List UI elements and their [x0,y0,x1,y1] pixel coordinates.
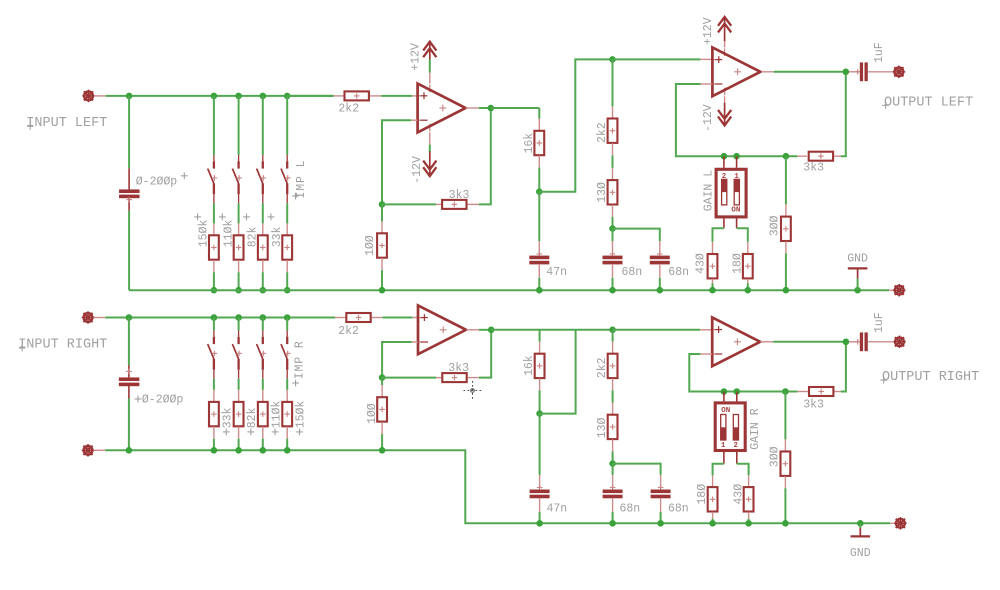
wire input-left row [106,95,334,97]
pin U1A V+ [429,73,431,84]
wire 16k top (right) [539,330,541,342]
wire resistor 33k to mid rail [213,439,215,451]
junction mid rail / C2 [126,447,133,454]
pin dip L 2 [736,156,738,168]
svg-text:ON: ON [731,206,740,214]
resistor 430 (left) [708,254,718,278]
capacitor 68n #1 (right) [603,490,623,494]
resistor 11&#216;k (right) [258,402,268,426]
junction mid rail / 11&#216;k [260,447,267,454]
pin 130r top [612,403,614,415]
pin 3k3 fb left (right) [436,377,441,379]
pin 430r top [748,475,750,486]
pin R 100 bottom [381,258,383,270]
ground GND (right) [851,535,871,537]
resistor 180 (right) [708,487,718,511]
origin cross IMP L label [292,195,299,197]
wire node to 68n#2 (right) [613,464,661,475]
pin op-amp U1A +in [412,95,417,97]
pin resistor 33k top [286,223,288,235]
origin cross INPUT LEFT [27,125,34,127]
wire switch 8 top [286,318,288,331]
pin C 68n1r bottom [612,499,614,512]
capacitor 47n (right) [530,490,550,494]
wire resistor 82k to mid rail [238,439,240,451]
pin R 3k3 fb left [436,203,441,205]
pin rail2 to pad [890,522,894,524]
origin cross C2 label [135,398,142,400]
origin cross OUTPUT LEFT [882,104,889,106]
origin cross C1 [126,199,132,201]
wire 68n1r to rail [612,512,614,523]
pin C 68n#2 bottom [659,265,661,278]
junction rail / 11&#216;k [235,287,242,294]
pin 3k3r out left [798,391,808,393]
svg-text:13Ø: 13Ø [596,417,609,438]
pin R 2k2r right [372,317,383,319]
pin 16kr top [539,342,541,354]
pin C 68n1r top [612,475,614,487]
pin dip L bottom1 [723,218,725,228]
svg-text:3ØØ: 3ØØ [769,215,782,236]
pin R 2k2 left [334,95,344,97]
svg-text:2k2: 2k2 [338,102,359,115]
op-amp U1B (left output stage) [712,59,716,61]
capacitor 68n #2 (right) [651,490,671,494]
resistor 100 (right) [377,397,387,421]
wire resistor 11&#216;k to rail [238,272,240,290]
svg-text:68n: 68n [668,266,689,279]
wire resistor 15&#216;k to rail [213,272,215,290]
wire switch 3 to resistor [262,203,264,223]
resistor 15&#216;k (left) [209,235,219,259]
origin cross C 1uF (left) [855,71,861,73]
wire to C 68n #1 [612,229,614,242]
resistor 130 (left) [608,180,618,204]
pin R 2k2r left [335,317,345,319]
wire R 100r to mid rail [381,434,383,450]
pin U1B V- [724,96,726,103]
pin resistor 11&#216;k bottom [262,427,264,439]
wire 16k node riser (right) [540,330,576,414]
wire 3k3 up to output [841,72,846,156]
pin 180 bottom [747,279,749,284]
wire dip to 180 [737,228,748,242]
wire switch 2 top [238,96,240,155]
origin cross C1 label [181,175,188,177]
pad X4 input right [84,313,93,322]
pin resistor 15&#216;k bottom [213,260,215,272]
junction input-right / switch col 287.2 [284,314,291,321]
svg-text:IMP L: IMP L [295,160,308,199]
pad X6 rail right end (right) [896,519,905,528]
pin rail to pad [889,289,893,291]
svg-text:-12V: -12V [702,104,715,132]
svg-text:18Ø: 18Ø [696,484,709,505]
junction rail2 / GND (right) [857,520,864,527]
resistor 3k3 feedback (U1B) [809,152,833,161]
svg-text:68n: 68n [620,503,641,516]
origin cross 33k label [268,216,275,218]
wire node to R 100 (right) [381,378,383,386]
pin C 1uFr right to pad [868,341,893,343]
svg-text:2k2: 2k2 [338,325,359,338]
junction row / 2k2 (right) [609,327,616,334]
svg-text:2k2: 2k2 [596,357,609,378]
wire U2B output [774,341,846,343]
wire row to U1B +in [613,58,701,60]
wire V- to -12V [429,145,431,152]
svg-text:13Ø: 13Ø [596,182,609,203]
svg-text:33k: 33k [221,407,234,428]
switch S2 (left) [238,155,240,162]
resistor 300 (left) [781,217,791,241]
svg-text:11Øk: 11Øk [222,220,235,248]
junction fb row / dip pin1 (right) [721,388,728,395]
pin R 2k2 right [370,95,381,97]
wire -in feedback row (left) [676,84,798,156]
svg-text:GND: GND [850,547,871,560]
junction rail / 82k [260,287,267,294]
svg-text:16k: 16k [523,133,536,154]
origin cross 11&#216;k label [272,431,279,433]
origin cross C 68n#2 (right) [658,487,664,489]
pin R 100r bottom [381,422,383,434]
junction rail2 / 68n#2 [657,520,664,527]
junction rail / R100 [379,287,386,294]
wire 2k2 to U2A +in [383,317,413,319]
pin X4 [94,317,106,319]
pin U1A -in [411,119,417,121]
wire dip to 430 (right) [737,464,749,476]
supply -12V arrow (U1A) [429,151,431,176]
pad X2 rail right end (left) [895,286,904,295]
pin U2A +in [413,317,418,319]
wire switch 6 to resistor [238,379,240,390]
pin 430r bottom [748,512,750,519]
capacitor 68n #1 (left) [603,256,623,260]
pin C2 top [128,365,130,377]
wire to GND (right) [859,523,861,528]
junction mid rail / 33k [211,447,218,454]
pin C 68n#2 top [659,241,661,253]
svg-text:3k3: 3k3 [803,161,824,174]
pin C 1uF left [849,71,860,73]
wire output to 16k [491,107,540,109]
pin U1A output [466,107,479,109]
origin cross INPUT RIGHT [19,347,26,349]
svg-text:OUTPUT RIGHT: OUTPUT RIGHT [882,370,979,385]
svg-text:1: 1 [721,442,726,450]
pin resistor 11&#216;k top [238,223,240,235]
origin cross 15&#216;k label [296,431,303,433]
junction input-left / switch col 262.8 [260,93,267,100]
pin 2k2v bottom [612,143,614,155]
pin U1B -in [701,83,713,85]
wire C2 bottom to mid rail [128,399,130,451]
supply +12V arrow (U1A) [429,41,431,59]
junction input-left / C1 [126,93,133,100]
wire 2k2v top [612,59,614,106]
wire 430 to rail [712,283,714,290]
junction rail / 430 [709,287,716,294]
pin 16k bottom [538,156,540,168]
pin 130 bottom [612,205,614,217]
svg-text:2k2: 2k2 [596,122,609,143]
pin dip R 1 [723,392,725,402]
resistor 33k (left) [282,235,292,259]
pin 180r top [712,475,714,486]
wire switch 5 top [213,318,215,331]
origin cross C 47n [537,253,543,255]
wire 16k top [538,108,540,119]
svg-text:3k3: 3k3 [449,189,470,202]
wire resistor 11&#216;k to mid rail [262,439,264,451]
wire input-right row [105,317,335,319]
pin C2 bottom [128,386,130,399]
wire resistor 33k to rail [286,272,288,290]
svg-text:1ØØ: 1ØØ [366,403,379,424]
junction feedback node (right) [379,374,386,381]
wire node to R 100 [381,204,383,221]
junction rail / 33k [284,287,291,294]
svg-text:-12V: -12V [411,156,424,184]
junction 130/68n node (right) [609,460,616,467]
wire 3k3 to output node [479,108,491,204]
cursor crosshair [464,390,482,392]
svg-text:47n: 47n [547,503,568,516]
pin resistor 82k bottom [262,260,264,272]
svg-text:47n: 47n [546,266,567,279]
wire row to U2B +in [613,329,701,331]
resistor 430 (right) [744,487,754,511]
wire switch 4 top [286,96,288,155]
resistor 82k (right) [234,402,244,426]
wire C1 top [128,96,130,168]
pin U2B -in [700,353,712,355]
wire 300 top [785,156,787,204]
svg-text:INPUT LEFT: INPUT LEFT [26,116,107,131]
svg-text:Ø-2ØØp: Ø-2ØØp [142,393,184,406]
pin X5 [94,449,106,451]
pin U2A -in [412,341,418,343]
pin dip R bottom2 [736,452,738,464]
wire switch 3 top [262,96,264,155]
resistor 180 (left) [743,254,753,278]
junction output / 1uF [843,69,850,76]
svg-text:82k: 82k [247,226,260,247]
junction rail / 180 [745,287,752,294]
resistor 11&#216;k (left) [234,235,244,259]
wire 180 to rail [747,283,749,290]
pin dip L 1 [723,156,725,168]
junction mid rail / 15&#216;k [284,447,291,454]
pad X7 output right [895,337,904,346]
junction rail / 300 [783,287,790,294]
pin resistor 33k top [213,390,215,402]
junction rail / GND (left) [854,287,861,294]
svg-text:68n: 68n [622,266,643,279]
svg-text:OUTPUT LEFT: OUTPUT LEFT [884,95,973,110]
wire switch 5 to resistor [213,379,215,390]
svg-text:Ø-2ØØp: Ø-2ØØp [136,176,178,189]
pin C 68n#1 top [612,241,614,253]
resistor 3k3 feedback (left) [442,200,466,209]
junction feedback node (left) [379,201,386,208]
wire C2 top [128,318,130,366]
wire 2k2vr to 130r [612,390,614,402]
ground GND (left) [848,267,868,269]
pin R 100r top [381,385,383,397]
wire dip to 180 (right) [713,464,724,476]
switch S5 (right) [213,330,215,337]
svg-text:ON: ON [721,407,730,415]
junction input-left / switch col 238.6 [235,93,242,100]
pin dip R bottom1 [723,452,725,464]
origin cross C 1uF (right) [855,341,861,343]
origin cross 33k label [223,431,230,433]
switch S1 (left) [213,155,215,162]
junction rail2 / 47n [536,520,543,527]
svg-text:1ØØ: 1ØØ [364,235,377,256]
op-amp U2B (right output stage) [712,329,716,331]
pin resistor 82k top [262,223,264,235]
resistor 16k (left) [534,131,544,155]
pin resistor 15&#216;k top [213,223,215,235]
wire 3k3 up to output (right) [841,342,846,392]
svg-text:+12V: +12V [410,43,423,71]
resistor 33k (right) [209,402,219,426]
wire U2A output stub [479,329,491,331]
switch S7 (right) [262,330,264,337]
pin resistor 33k bottom [286,260,288,272]
junction input-right / switch col 238.6 [235,314,242,321]
pin 130 top [612,168,614,180]
junction mid rail / 82k [235,447,242,454]
junction input-right / switch col 262.8 [260,314,267,321]
junction 16k/47n node (right) [536,410,543,417]
capacitor 1uF (right) [860,332,863,351]
svg-text:+12V: +12V [702,17,715,45]
wire C1 bottom to rail [128,211,130,290]
pin C 68n2r bottom [660,499,662,512]
wire output stub [479,107,491,109]
junction U1B row / 2k2 [609,56,616,63]
junction rail / 15&#216;k [211,287,218,294]
pin C1 top [128,168,130,189]
origin cross OUTPUT RIGHT [880,379,887,381]
wire to C 68n#1 (right) [612,464,614,475]
wire 68n#2 to rail [659,278,661,290]
svg-text:43Ø: 43Ø [695,253,708,274]
svg-text:1uF: 1uF [873,42,886,63]
wire switch 4 to resistor [286,203,288,223]
wire -in feedback row (right) [689,354,797,392]
pin C 1uFr left [849,341,860,343]
pin C 47n bottom [538,265,540,278]
svg-text:68n: 68n [668,503,689,516]
wire 47n to rail [538,278,540,290]
svg-text:3k3: 3k3 [803,398,824,411]
junction U2A output node [488,327,495,334]
pin U1B V+ [724,41,726,48]
svg-text:33k: 33k [271,226,284,247]
wire 300r to rail [784,488,786,523]
pad X1 input left [84,92,93,101]
origin cross 82k label [243,216,250,218]
origin cross C2 [126,370,132,372]
junction input-left / switch col 213.9 [211,93,218,100]
resistor 82k (left) [258,235,268,259]
capacitor 47n (left) [529,256,549,260]
capacitor 1uF (left) [860,62,863,81]
junction input-left / switch col 287.2 [284,93,291,100]
resistor 2k2 shunt (right) [608,354,618,378]
pin U1B +in [700,58,712,60]
junction fb row / 300 [783,153,790,160]
pin dip L bottom2 [736,218,738,228]
pin 2k2v top [612,106,614,118]
wire switch 2 to resistor [238,203,240,223]
junction rail / 68n#2 [657,287,664,294]
wire -in to feedback node (right) [382,342,412,378]
svg-text:43Ø: 43Ø [732,484,745,505]
wire 16kr bottom [539,390,541,413]
pin GND (left) [857,268,859,278]
svg-text:GAIN L: GAIN L [703,170,716,212]
pin 3k3 fb right (right) [468,377,479,379]
supply +12V arrow (U1B) [724,17,726,41]
switch S8 (right) [286,330,288,337]
pin 430 top [712,242,714,254]
pin X1 [94,95,105,97]
wire 16k bottom [538,168,540,192]
pin R 3k3 fb right [468,203,479,205]
pin 300r top [784,439,786,451]
svg-text:1uF: 1uF [873,312,886,333]
pin U1A V- [429,132,431,144]
wire switch 8 to resistor [286,379,288,390]
junction mid rail / 100 [379,447,386,454]
wire dip to 430 [713,228,724,242]
wire switch 7 top [262,318,264,331]
origin cross 15&#216;k label [194,216,201,218]
pin 16k top [538,119,540,131]
wire U1B output [774,71,846,73]
op-amp U1A (left input stage) [417,95,421,97]
wire switch 1 top [213,96,215,155]
pin U2A output [466,329,479,331]
pin 300r bottom [784,476,786,488]
origin cross C 68n#1 (right) [610,487,616,489]
wire 2k2v to 130 [612,155,614,168]
pin R 100 top [381,221,383,233]
pin 130r bottom [612,439,614,451]
junction rail2 / 430 [745,520,752,527]
svg-text:GND: GND [847,253,868,266]
pin resistor 11&#216;k top [262,390,264,402]
pin C 47n top [538,241,540,253]
resistor 2k2 shunt (left) [608,119,618,143]
junction 130/68n node [609,225,616,232]
resistor 2k2 series (right) [346,313,370,322]
svg-text:15Øk: 15Øk [295,401,308,429]
svg-text:15Øk: 15Øk [198,220,211,248]
wire 130 bottom [612,217,614,229]
svg-text:IMP R: IMP R [293,340,306,379]
pin resistor 11&#216;k bottom [238,260,240,272]
switch S3 (left) [262,155,264,162]
